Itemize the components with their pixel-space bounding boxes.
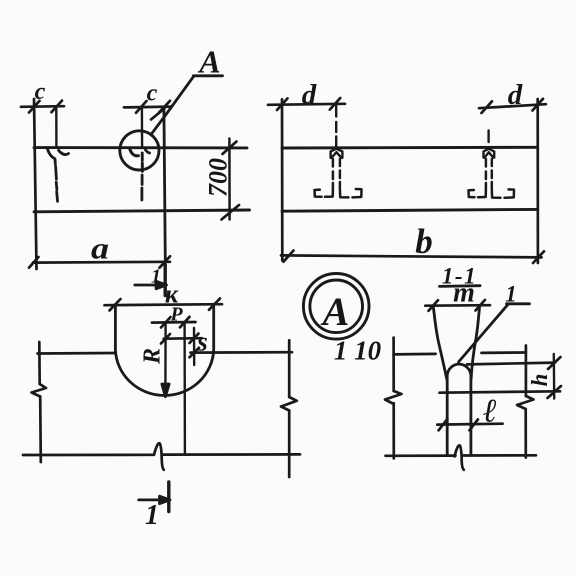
- svg-text:d: d: [508, 79, 523, 111]
- svg-text:ℓ: ℓ: [483, 394, 497, 430]
- svg-text:1 10: 1 10: [334, 336, 382, 366]
- svg-text:1: 1: [505, 282, 517, 307]
- svg-text:1: 1: [145, 500, 159, 531]
- svg-text:c: c: [147, 80, 158, 106]
- svg-text:d: d: [302, 79, 317, 111]
- svg-text:s: s: [196, 327, 208, 357]
- svg-text:А: А: [320, 289, 350, 334]
- svg-text:1: 1: [151, 266, 161, 288]
- svg-text:R: R: [140, 348, 166, 365]
- svg-text:P: P: [169, 304, 183, 326]
- svg-text:h: h: [527, 374, 552, 387]
- svg-text:700: 700: [204, 158, 233, 197]
- svg-text:c: c: [35, 79, 46, 105]
- svg-text:А: А: [197, 44, 220, 80]
- svg-text:b: b: [415, 222, 433, 261]
- svg-text:a: a: [91, 230, 109, 265]
- svg-text:m: m: [453, 278, 475, 309]
